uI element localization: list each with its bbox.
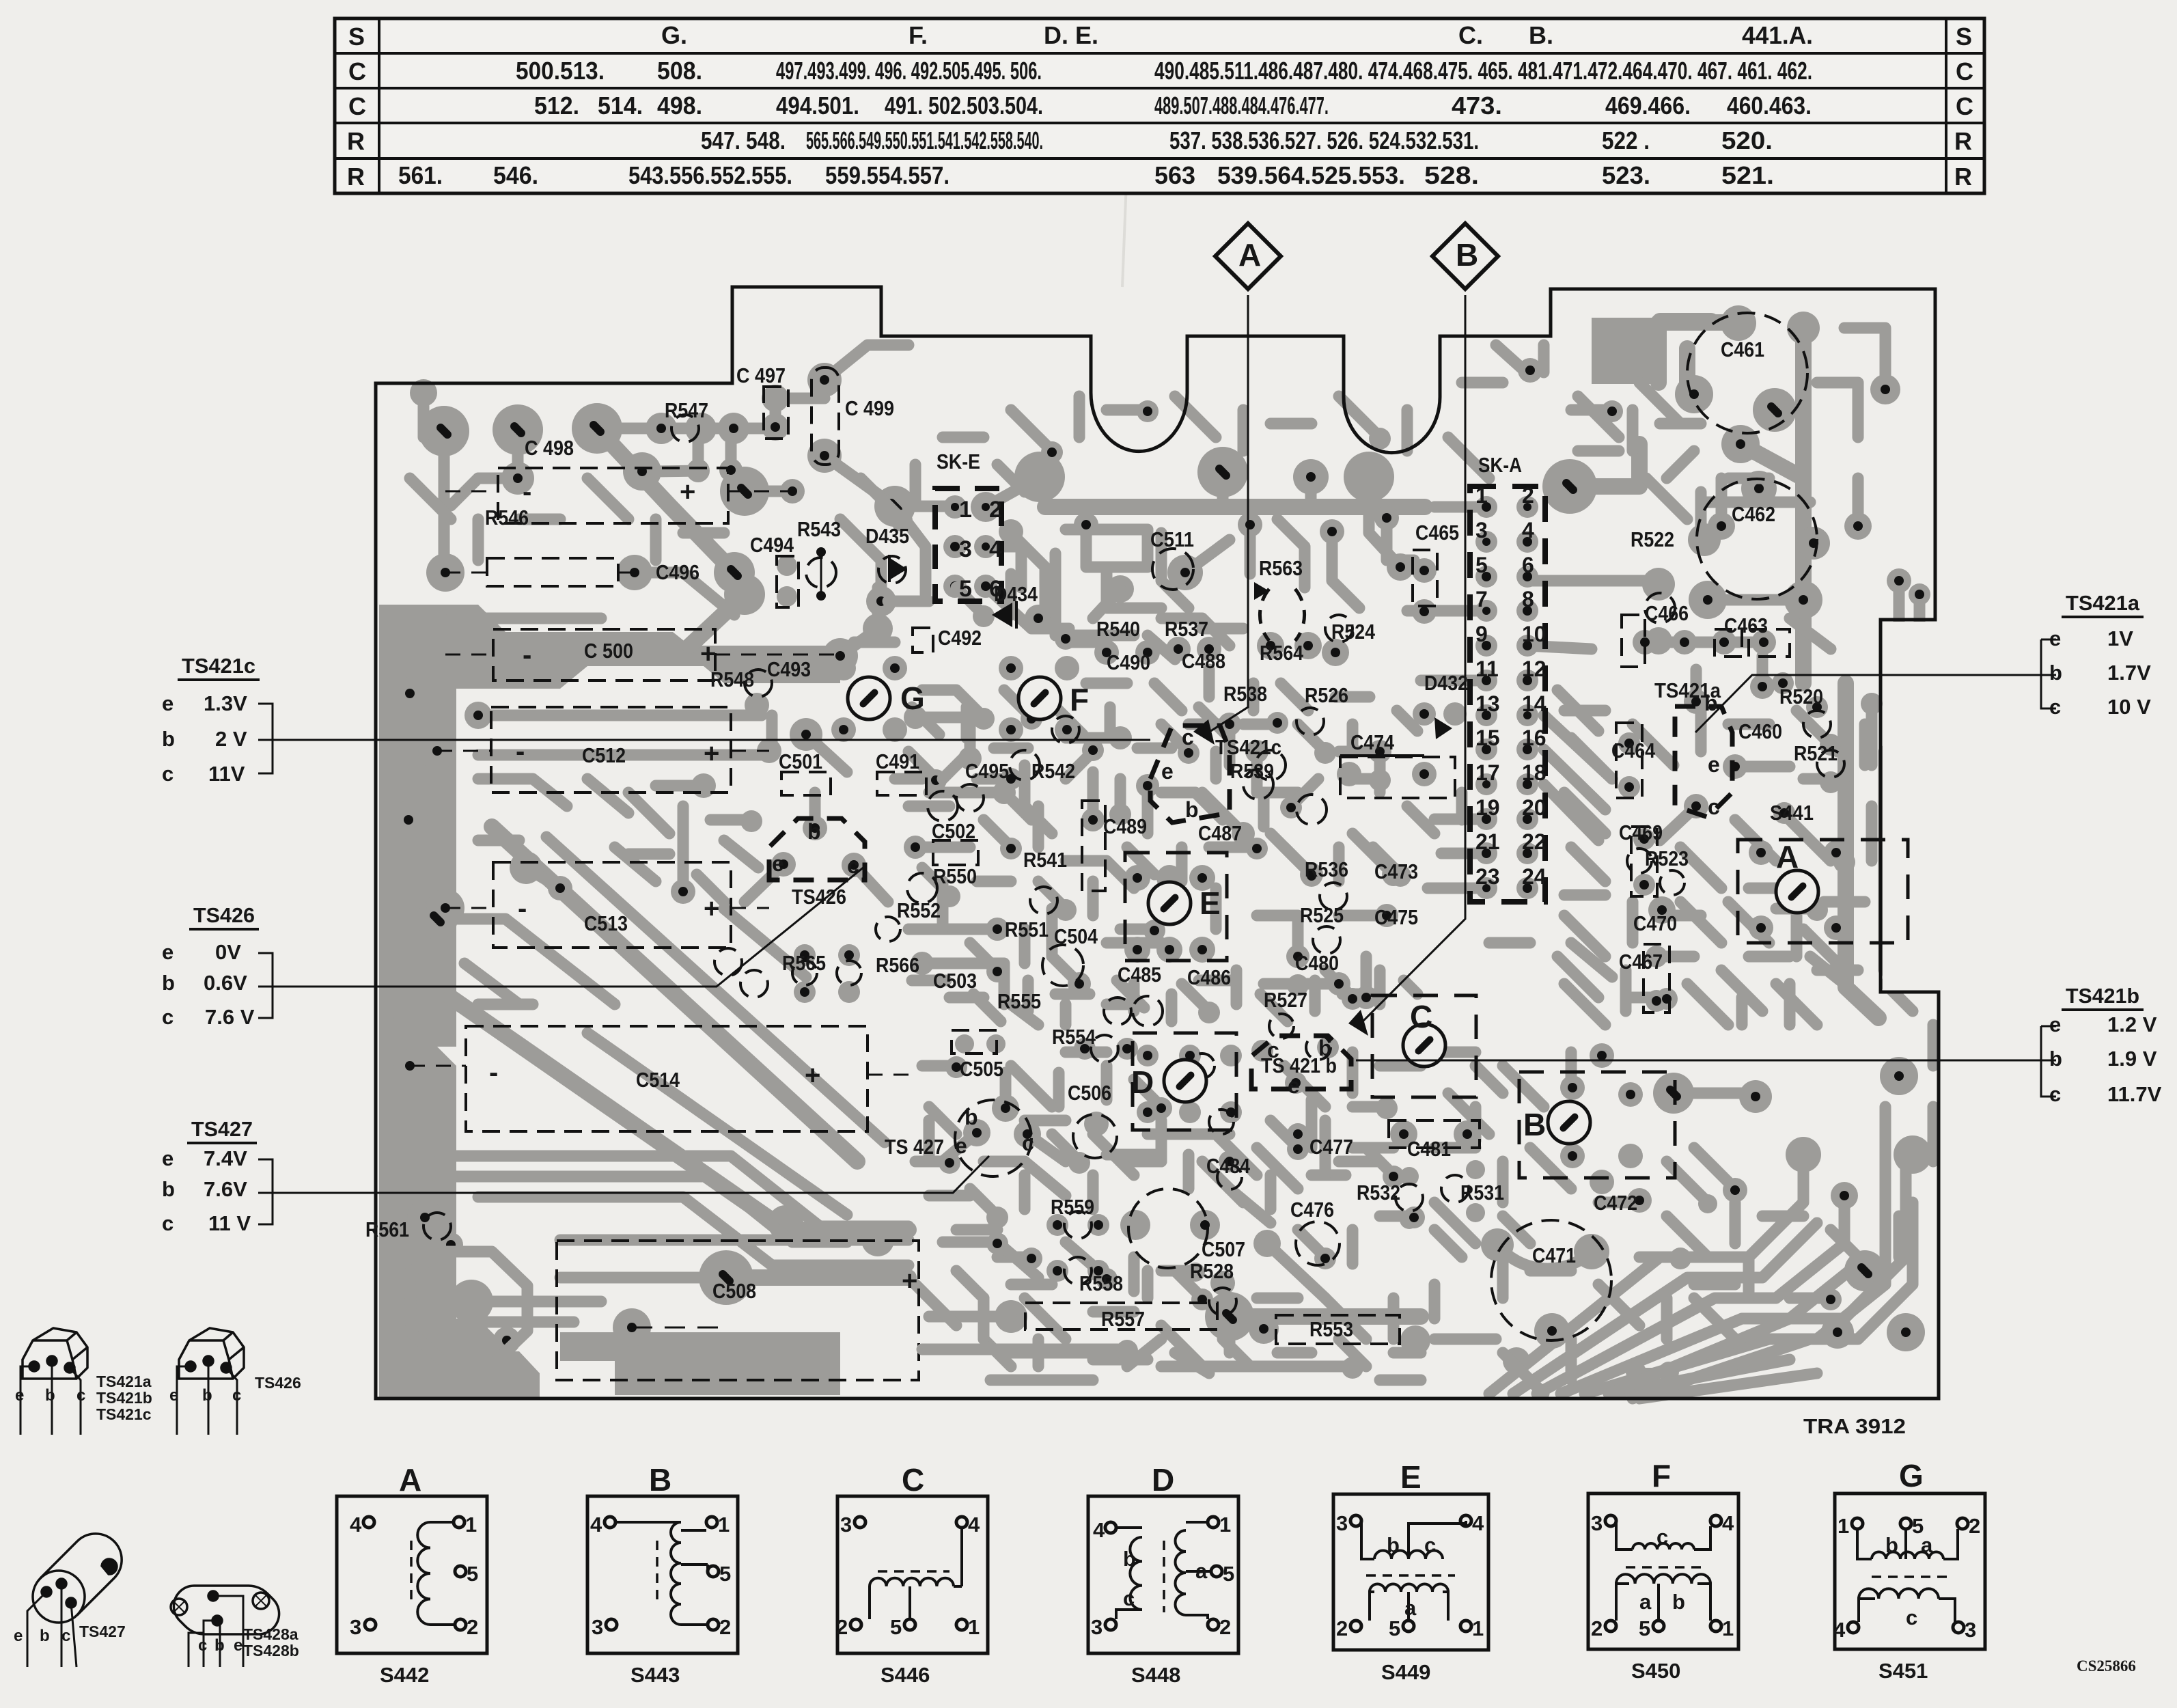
svg-text:2: 2 bbox=[467, 1615, 478, 1639]
svg-text:508.: 508. bbox=[657, 57, 702, 85]
top-middle big pads + bus bbox=[1014, 452, 1065, 502]
svg-text:G: G bbox=[900, 680, 925, 716]
C500 area pour bbox=[379, 605, 840, 689]
svg-text:c: c bbox=[2049, 1082, 2061, 1106]
svg-text:e: e bbox=[1161, 759, 1174, 784]
svg-text:a: a bbox=[1195, 1559, 1208, 1583]
svg-text:b: b bbox=[965, 1105, 978, 1129]
svg-text:7: 7 bbox=[1475, 587, 1488, 611]
svg-text:C 497: C 497 bbox=[736, 363, 786, 387]
svg-text:b: b bbox=[162, 727, 175, 751]
svg-text:G: G bbox=[1899, 1458, 1924, 1493]
svg-text:C476: C476 bbox=[1290, 1198, 1334, 1222]
svg-text:5: 5 bbox=[1223, 1562, 1234, 1586]
svg-text:S: S bbox=[348, 23, 365, 51]
svg-text:520.: 520. bbox=[1721, 126, 1773, 154]
svg-text:c: c bbox=[77, 1386, 85, 1405]
middle-left C512 etc bbox=[478, 710, 762, 721]
svg-text:A: A bbox=[399, 1462, 421, 1498]
svg-text:TS421a: TS421a bbox=[2066, 591, 2140, 615]
Box D S448 bbox=[1088, 1496, 1238, 1653]
svg-text:R559: R559 bbox=[1051, 1195, 1094, 1219]
R563 dashed parens bbox=[1260, 589, 1269, 641]
svg-text:7.4V: 7.4V bbox=[204, 1146, 247, 1170]
svg-text:C487: C487 bbox=[1198, 821, 1242, 845]
svg-text:b: b bbox=[1387, 1533, 1400, 1557]
svg-text:8: 8 bbox=[1522, 587, 1534, 611]
svg-text:R523: R523 bbox=[1645, 846, 1689, 870]
svg-text:R531: R531 bbox=[1460, 1181, 1504, 1204]
svg-text:C491: C491 bbox=[876, 749, 919, 773]
svg-text:4: 4 bbox=[968, 1513, 980, 1537]
tile21 additions bbox=[1293, 459, 1329, 495]
svg-text:c: c bbox=[1424, 1533, 1436, 1557]
svg-text:494.501.: 494.501. bbox=[776, 92, 859, 120]
svg-text:c: c bbox=[1708, 795, 1720, 819]
svg-text:C506: C506 bbox=[1068, 1081, 1111, 1105]
svg-text:2: 2 bbox=[989, 497, 1002, 523]
svg-text:2: 2 bbox=[1591, 1616, 1603, 1640]
tile32 additions bbox=[1557, 690, 1612, 977]
Box B S443 bbox=[587, 1496, 738, 1653]
svg-text:R564: R564 bbox=[1260, 641, 1304, 665]
svg-text:c: c bbox=[162, 1005, 174, 1029]
svg-text:14: 14 bbox=[1522, 691, 1547, 716]
svg-text:c: c bbox=[1656, 1525, 1668, 1549]
svg-text:1: 1 bbox=[968, 1615, 980, 1639]
svg-text:C: C bbox=[1956, 57, 1973, 85]
svg-text:C490: C490 bbox=[1107, 650, 1150, 674]
svg-text:512.: 512. bbox=[534, 92, 579, 120]
svg-text:4: 4 bbox=[1522, 518, 1534, 542]
svg-text:C: C bbox=[348, 92, 366, 120]
svg-text:c: c bbox=[1182, 725, 1194, 749]
svg-text:TS421b: TS421b bbox=[2066, 984, 2139, 1008]
svg-text:S446: S446 bbox=[880, 1663, 930, 1687]
tile33 additions bbox=[1434, 1066, 1530, 1339]
svg-text:D: D bbox=[1131, 1064, 1154, 1100]
svg-text:e: e bbox=[14, 1627, 23, 1645]
svg-text:C463: C463 bbox=[1724, 614, 1768, 637]
svg-text:C507: C507 bbox=[1202, 1237, 1245, 1261]
Box F S450 bbox=[1588, 1493, 1738, 1649]
svg-text:TS427: TS427 bbox=[79, 1623, 126, 1640]
svg-text:R543: R543 bbox=[797, 517, 841, 541]
svg-text:441.A.: 441.A. bbox=[1742, 21, 1813, 49]
svg-text:+: + bbox=[680, 477, 695, 507]
svg-text:b: b bbox=[1672, 1590, 1685, 1614]
svg-text:C469: C469 bbox=[1619, 821, 1663, 844]
svg-text:SK-A: SK-A bbox=[1478, 453, 1522, 477]
svg-text:565.566.549.550.551.541.542.55: 565.566.549.550.551.541.542.558.540. bbox=[806, 126, 1043, 154]
electrolytic dashed boxes bbox=[466, 468, 1400, 1380]
svg-text:e: e bbox=[162, 1146, 174, 1170]
svg-text:F.: F. bbox=[909, 21, 928, 49]
svg-text:b: b bbox=[202, 1386, 212, 1405]
svg-text:R540: R540 bbox=[1096, 617, 1140, 641]
svg-text:b: b bbox=[45, 1386, 55, 1405]
svg-text:e: e bbox=[169, 1386, 178, 1405]
svg-text:2: 2 bbox=[719, 1615, 731, 1639]
svg-text:17: 17 bbox=[1475, 760, 1500, 785]
more bottom-center density bbox=[943, 1242, 1421, 1366]
svg-text:3: 3 bbox=[959, 536, 972, 562]
svg-text:C464: C464 bbox=[1611, 739, 1656, 762]
svg-text:4: 4 bbox=[989, 536, 1002, 562]
svg-text:TS 421 b: TS 421 b bbox=[1261, 1053, 1337, 1077]
svg-text:R522: R522 bbox=[1631, 527, 1674, 551]
TS427 cylinder bbox=[27, 1534, 122, 1667]
t11 additions bbox=[410, 478, 724, 560]
svg-text:21: 21 bbox=[1475, 829, 1500, 854]
svg-text:R557: R557 bbox=[1101, 1307, 1145, 1331]
svg-text:e: e bbox=[2049, 1013, 2061, 1036]
svg-text:c: c bbox=[1022, 1131, 1034, 1155]
svg-text:2 V: 2 V bbox=[215, 727, 247, 751]
svg-text:TS421c: TS421c bbox=[182, 654, 255, 678]
svg-text:R546: R546 bbox=[485, 506, 529, 529]
Box G S451 bbox=[1835, 1493, 1985, 1649]
svg-text:S: S bbox=[1956, 23, 1972, 51]
svg-text:C503: C503 bbox=[933, 969, 977, 993]
svg-text:547. 548.: 547. 548. bbox=[701, 126, 786, 154]
svg-text:c: c bbox=[2049, 695, 2061, 719]
svg-text:R: R bbox=[1954, 163, 1972, 191]
svg-text:R554: R554 bbox=[1052, 1025, 1096, 1049]
svg-text:R539: R539 bbox=[1230, 759, 1274, 783]
t22 second maze pass bbox=[912, 683, 1417, 1021]
svg-text:3: 3 bbox=[350, 1615, 361, 1639]
svg-text:4: 4 bbox=[1833, 1618, 1846, 1642]
svg-text:-: - bbox=[523, 640, 531, 670]
svg-text:S442: S442 bbox=[380, 1663, 429, 1687]
svg-text:C504: C504 bbox=[1054, 924, 1098, 948]
svg-text:c: c bbox=[1906, 1606, 1917, 1629]
svg-text:C460: C460 bbox=[1738, 719, 1782, 743]
svg-text:C470: C470 bbox=[1633, 911, 1677, 935]
svg-text:C512: C512 bbox=[582, 743, 626, 767]
tile23 additions bbox=[915, 1066, 1414, 1298]
svg-text:+: + bbox=[704, 739, 719, 769]
svg-text:11V: 11V bbox=[208, 762, 245, 786]
t31 additions bbox=[1448, 345, 1680, 478]
svg-text:R526: R526 bbox=[1305, 683, 1348, 707]
svg-text:3: 3 bbox=[1965, 1618, 1976, 1642]
svg-text:R527: R527 bbox=[1264, 988, 1307, 1012]
dashed connect lines for electrolytics bbox=[410, 491, 909, 1327]
diode marks bbox=[888, 557, 907, 580]
svg-text:19: 19 bbox=[1475, 795, 1500, 820]
svg-text:C474: C474 bbox=[1350, 730, 1395, 754]
svg-text:c: c bbox=[61, 1627, 70, 1645]
svg-text:TS421a: TS421a bbox=[1654, 678, 1721, 702]
svg-text:b: b bbox=[2049, 1047, 2062, 1071]
svg-text:C472: C472 bbox=[1594, 1191, 1637, 1215]
svg-text:2: 2 bbox=[1522, 483, 1534, 508]
svg-text:1.7V: 1.7V bbox=[2107, 661, 2151, 685]
svg-text:490.485.511.486.487.480. 474.4: 490.485.511.486.487.480. 474.468.475. 46… bbox=[1154, 57, 1812, 85]
svg-text:b: b bbox=[162, 971, 175, 995]
svg-text:4: 4 bbox=[350, 1513, 362, 1537]
svg-text:e: e bbox=[234, 1636, 242, 1655]
svg-text:S449: S449 bbox=[1381, 1660, 1430, 1684]
SK-E connector bbox=[935, 488, 1002, 602]
svg-text:22: 22 bbox=[1522, 829, 1547, 854]
svg-text:TS421c: TS421c bbox=[96, 1405, 152, 1423]
bottom band t13 bbox=[383, 1319, 519, 1397]
svg-text:539.564.525.553.: 539.564.525.553. bbox=[1217, 161, 1405, 189]
TS421a/b/c package bbox=[20, 1328, 87, 1435]
svg-text:522 .: 522 . bbox=[1602, 126, 1650, 154]
svg-text:-: - bbox=[518, 894, 527, 924]
svg-text:1.9 V: 1.9 V bbox=[2107, 1047, 2157, 1071]
svg-text:R532: R532 bbox=[1357, 1181, 1400, 1204]
diamond A bbox=[1215, 223, 1281, 289]
svg-text:R552: R552 bbox=[897, 898, 941, 922]
svg-text:b: b bbox=[214, 1636, 225, 1655]
svg-text:R553: R553 bbox=[1309, 1317, 1353, 1341]
svg-text:a: a bbox=[1921, 1533, 1933, 1557]
svg-text:1: 1 bbox=[1472, 1616, 1484, 1640]
svg-text:1: 1 bbox=[1722, 1616, 1734, 1640]
svg-text:R: R bbox=[1954, 127, 1972, 155]
svg-text:-: - bbox=[523, 477, 531, 507]
svg-text:3: 3 bbox=[592, 1615, 603, 1639]
svg-text:e: e bbox=[772, 851, 784, 876]
svg-text:1: 1 bbox=[1219, 1513, 1231, 1537]
small dashed rects: C497 C499 C494 C502 C489 C501 C491 C465 C466 C464 C469 C467 C470 C463 C481 C492 C490 C485? bbox=[764, 368, 1790, 1148]
svg-text:C466: C466 bbox=[1645, 601, 1689, 625]
svg-text:TRA 3912: TRA 3912 bbox=[1803, 1414, 1906, 1438]
svg-text:e: e bbox=[955, 1133, 967, 1158]
svg-text:D. E.: D. E. bbox=[1044, 21, 1098, 49]
svg-text:460.463.: 460.463. bbox=[1727, 92, 1812, 120]
svg-text:R550: R550 bbox=[933, 864, 977, 888]
svg-text:1: 1 bbox=[465, 1513, 477, 1537]
svg-text:C: C bbox=[902, 1462, 924, 1498]
svg-text:C486: C486 bbox=[1187, 965, 1231, 989]
t33 fan extension bbox=[1609, 1161, 1913, 1399]
svg-text:C 500: C 500 bbox=[584, 639, 633, 663]
svg-text:1: 1 bbox=[959, 497, 972, 523]
svg-text:S448: S448 bbox=[1131, 1663, 1180, 1687]
svg-text:R537: R537 bbox=[1165, 617, 1208, 641]
svg-text:C485: C485 bbox=[1118, 963, 1161, 987]
top-left big pads row bbox=[419, 406, 469, 456]
svg-text:B: B bbox=[1523, 1107, 1546, 1142]
svg-text:546.: 546. bbox=[493, 161, 538, 189]
svg-text:a: a bbox=[1404, 1596, 1417, 1620]
svg-text:TS421a: TS421a bbox=[96, 1373, 152, 1390]
svg-text:6: 6 bbox=[1522, 553, 1534, 577]
tile12 additions bbox=[478, 779, 758, 888]
svg-text:491. 502.503.504.: 491. 502.503.504. bbox=[885, 92, 1043, 120]
svg-text:S443: S443 bbox=[630, 1663, 680, 1687]
svg-text:C477: C477 bbox=[1309, 1135, 1353, 1159]
svg-text:TS428b: TS428b bbox=[243, 1642, 299, 1659]
bottom-right bbox=[1390, 1120, 1417, 1148]
svg-text:1V: 1V bbox=[2107, 626, 2133, 650]
svg-text:537. 538.536.527. 526. 524.532: 537. 538.536.527. 526. 524.532.531. bbox=[1169, 126, 1479, 154]
svg-text:A: A bbox=[1238, 237, 1261, 273]
svg-text:514.: 514. bbox=[598, 92, 643, 120]
svg-text:C511: C511 bbox=[1150, 527, 1194, 551]
svg-text:E: E bbox=[1200, 885, 1221, 921]
svg-text:C: C bbox=[348, 57, 366, 85]
svg-text:TS426: TS426 bbox=[255, 1374, 301, 1392]
svg-text:R561: R561 bbox=[365, 1217, 409, 1241]
svg-text:11.7V: 11.7V bbox=[2107, 1082, 2162, 1106]
trimmer circles with slots bbox=[848, 677, 890, 719]
svg-text:R524: R524 bbox=[1331, 620, 1376, 644]
pointer line B bbox=[1359, 295, 1465, 1025]
svg-text:11: 11 bbox=[1475, 657, 1499, 681]
top-right C461/C462 bbox=[1592, 318, 1661, 384]
svg-text:B: B bbox=[1456, 237, 1478, 273]
svg-text:S441: S441 bbox=[1770, 801, 1814, 825]
svg-text:C481: C481 bbox=[1407, 1137, 1451, 1161]
svg-text:b: b bbox=[162, 1177, 175, 1201]
diamond B bbox=[1432, 223, 1498, 289]
svg-text:D434: D434 bbox=[994, 582, 1038, 606]
middle-right bbox=[1684, 689, 1708, 714]
middle-center maze bbox=[848, 678, 889, 719]
svg-text:R525: R525 bbox=[1300, 903, 1344, 927]
svg-text:18: 18 bbox=[1522, 760, 1547, 785]
svg-text:11 V: 11 V bbox=[208, 1211, 251, 1235]
svg-text:C480: C480 bbox=[1295, 951, 1339, 975]
svg-text:R536: R536 bbox=[1305, 857, 1348, 881]
svg-text:C513: C513 bbox=[584, 911, 628, 935]
svg-text:C514: C514 bbox=[636, 1068, 680, 1092]
svg-text:4: 4 bbox=[1472, 1511, 1484, 1535]
svg-text:15: 15 bbox=[1475, 726, 1500, 750]
svg-text:3: 3 bbox=[1475, 518, 1488, 542]
svg-text:7.6V: 7.6V bbox=[204, 1177, 247, 1201]
svg-text:E: E bbox=[1400, 1459, 1422, 1495]
svg-text:R566: R566 bbox=[876, 953, 919, 977]
svg-text:B: B bbox=[649, 1462, 671, 1498]
svg-text:4: 4 bbox=[1722, 1511, 1734, 1535]
pointer line A bbox=[1202, 295, 1248, 736]
svg-text:B.: B. bbox=[1529, 21, 1553, 49]
svg-text:b: b bbox=[2049, 661, 2062, 685]
t32 additions bbox=[1564, 779, 1844, 1025]
svg-text:5: 5 bbox=[1389, 1616, 1400, 1640]
TS426 package bbox=[177, 1328, 244, 1435]
svg-text:+: + bbox=[902, 1266, 917, 1296]
maze below bus bbox=[1066, 529, 1161, 608]
svg-text:3: 3 bbox=[1091, 1615, 1103, 1639]
svg-text:C475: C475 bbox=[1374, 905, 1418, 929]
svg-text:5: 5 bbox=[959, 576, 972, 602]
svg-text:523.: 523. bbox=[1602, 161, 1650, 189]
svg-text:b: b bbox=[807, 819, 821, 844]
svg-text:5: 5 bbox=[467, 1562, 478, 1586]
svg-text:A: A bbox=[1776, 839, 1799, 874]
svg-text:e: e bbox=[162, 691, 174, 715]
svg-text:13: 13 bbox=[1475, 691, 1500, 716]
svg-text:c: c bbox=[232, 1386, 241, 1405]
svg-text:-: - bbox=[489, 1058, 498, 1088]
svg-text:3: 3 bbox=[1591, 1511, 1603, 1535]
svg-text:C508: C508 bbox=[712, 1279, 756, 1303]
svg-text:C473: C473 bbox=[1374, 859, 1418, 883]
svg-text:563: 563 bbox=[1154, 161, 1195, 189]
svg-text:c: c bbox=[162, 1211, 174, 1235]
svg-text:2: 2 bbox=[1219, 1615, 1231, 1639]
svg-text:R563: R563 bbox=[1259, 556, 1303, 580]
svg-text:c: c bbox=[162, 762, 174, 786]
svg-text:TS428a: TS428a bbox=[243, 1625, 299, 1643]
svg-text:C 499: C 499 bbox=[845, 396, 894, 420]
svg-text:2: 2 bbox=[836, 1615, 848, 1639]
bottom-center bbox=[963, 1119, 990, 1146]
TS pentagon outlines (dashed bold) bbox=[769, 706, 1732, 1089]
big dashed circles bbox=[955, 313, 1817, 1340]
Box E S449 bbox=[1333, 1494, 1488, 1650]
svg-text:C493: C493 bbox=[767, 657, 811, 681]
svg-text:C495: C495 bbox=[965, 759, 1009, 783]
t21 additions bbox=[1011, 396, 1407, 451]
svg-text:F: F bbox=[1070, 682, 1089, 717]
svg-text:R542: R542 bbox=[1031, 759, 1075, 783]
svg-text:3: 3 bbox=[840, 1513, 852, 1537]
svg-text:497.493.499. 496. 492.505.495.: 497.493.499. 496. 492.505.495. 506. bbox=[776, 57, 1042, 85]
svg-text:+: + bbox=[700, 639, 716, 669]
svg-text:+: + bbox=[704, 894, 719, 924]
svg-text:R555: R555 bbox=[997, 989, 1041, 1013]
svg-text:C.: C. bbox=[1458, 21, 1483, 49]
svg-text:R547: R547 bbox=[665, 398, 708, 422]
svg-text:C471: C471 bbox=[1532, 1243, 1576, 1267]
svg-text:SK-E: SK-E bbox=[937, 450, 980, 473]
svg-text:S451: S451 bbox=[1878, 1659, 1928, 1683]
svg-text:F: F bbox=[1652, 1458, 1671, 1493]
svg-text:5: 5 bbox=[719, 1562, 731, 1586]
svg-text:5: 5 bbox=[1639, 1616, 1650, 1640]
svg-text:1: 1 bbox=[1838, 1514, 1849, 1538]
svg-text:469.466.: 469.466. bbox=[1605, 92, 1691, 120]
tile11 additions bbox=[451, 618, 601, 656]
svg-text:561.: 561. bbox=[398, 161, 443, 189]
svg-text:S450: S450 bbox=[1631, 1659, 1680, 1683]
svg-text:500.513.: 500.513. bbox=[516, 57, 605, 85]
svg-text:0.6V: 0.6V bbox=[204, 971, 247, 995]
svg-text:5: 5 bbox=[1475, 553, 1488, 577]
svg-text:24: 24 bbox=[1522, 864, 1547, 889]
svg-text:C494: C494 bbox=[750, 533, 794, 557]
svg-text:R: R bbox=[347, 127, 365, 155]
svg-text:C465: C465 bbox=[1415, 521, 1459, 545]
svg-text:10 V: 10 V bbox=[2107, 695, 2151, 719]
svg-text:C484: C484 bbox=[1206, 1154, 1251, 1178]
svg-text:0V: 0V bbox=[215, 940, 241, 964]
svg-text:D435: D435 bbox=[865, 524, 909, 548]
svg-text:R528: R528 bbox=[1190, 1259, 1234, 1283]
svg-text:C496: C496 bbox=[656, 560, 699, 584]
svg-text:489.507.488.484.476.477.: 489.507.488.484.476.477. bbox=[1154, 92, 1329, 120]
svg-text:3: 3 bbox=[1336, 1511, 1348, 1535]
svg-text:C501: C501 bbox=[779, 749, 822, 773]
svg-text:4: 4 bbox=[1093, 1518, 1105, 1542]
pentagon pin letters bbox=[772, 691, 1720, 1158]
svg-text:TS421b: TS421b bbox=[96, 1389, 152, 1407]
svg-text:e: e bbox=[1708, 752, 1720, 777]
svg-text:C467: C467 bbox=[1619, 950, 1663, 974]
svg-text:1.3V: 1.3V bbox=[204, 691, 247, 715]
parallel horizontal bands lower-left entering center (target-like) bbox=[437, 1156, 909, 1322]
